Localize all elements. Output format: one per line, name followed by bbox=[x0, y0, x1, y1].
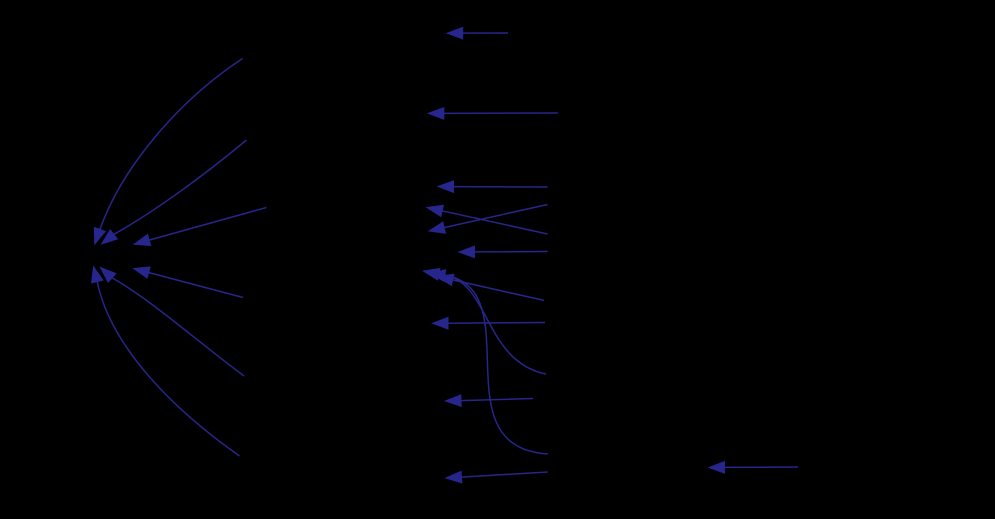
arrow m2 bbox=[428, 108, 558, 120]
arrow m4 bbox=[429, 205, 548, 234]
arrow m8 curve bbox=[430, 270, 547, 374]
arrow l3 bbox=[134, 208, 266, 246]
arrow b1 bbox=[709, 462, 798, 474]
arrow m3 bbox=[438, 181, 548, 193]
arrow m11 bbox=[446, 395, 534, 407]
arrow l4 bbox=[134, 267, 243, 298]
arrow m5 bbox=[427, 205, 548, 234]
arrow m10 bbox=[433, 317, 546, 329]
arrow m9 curve bbox=[424, 269, 548, 455]
arrow l1 arc bbox=[94, 59, 242, 245]
arrow l6 arc bbox=[92, 267, 240, 456]
arrow m1 bbox=[447, 27, 508, 39]
arrow l5 curve bbox=[101, 268, 245, 377]
arrow m7 bbox=[438, 274, 545, 300]
arrow m6 bbox=[459, 246, 548, 258]
arrow l2 curve bbox=[102, 140, 247, 244]
arrow m12 bbox=[446, 471, 548, 483]
